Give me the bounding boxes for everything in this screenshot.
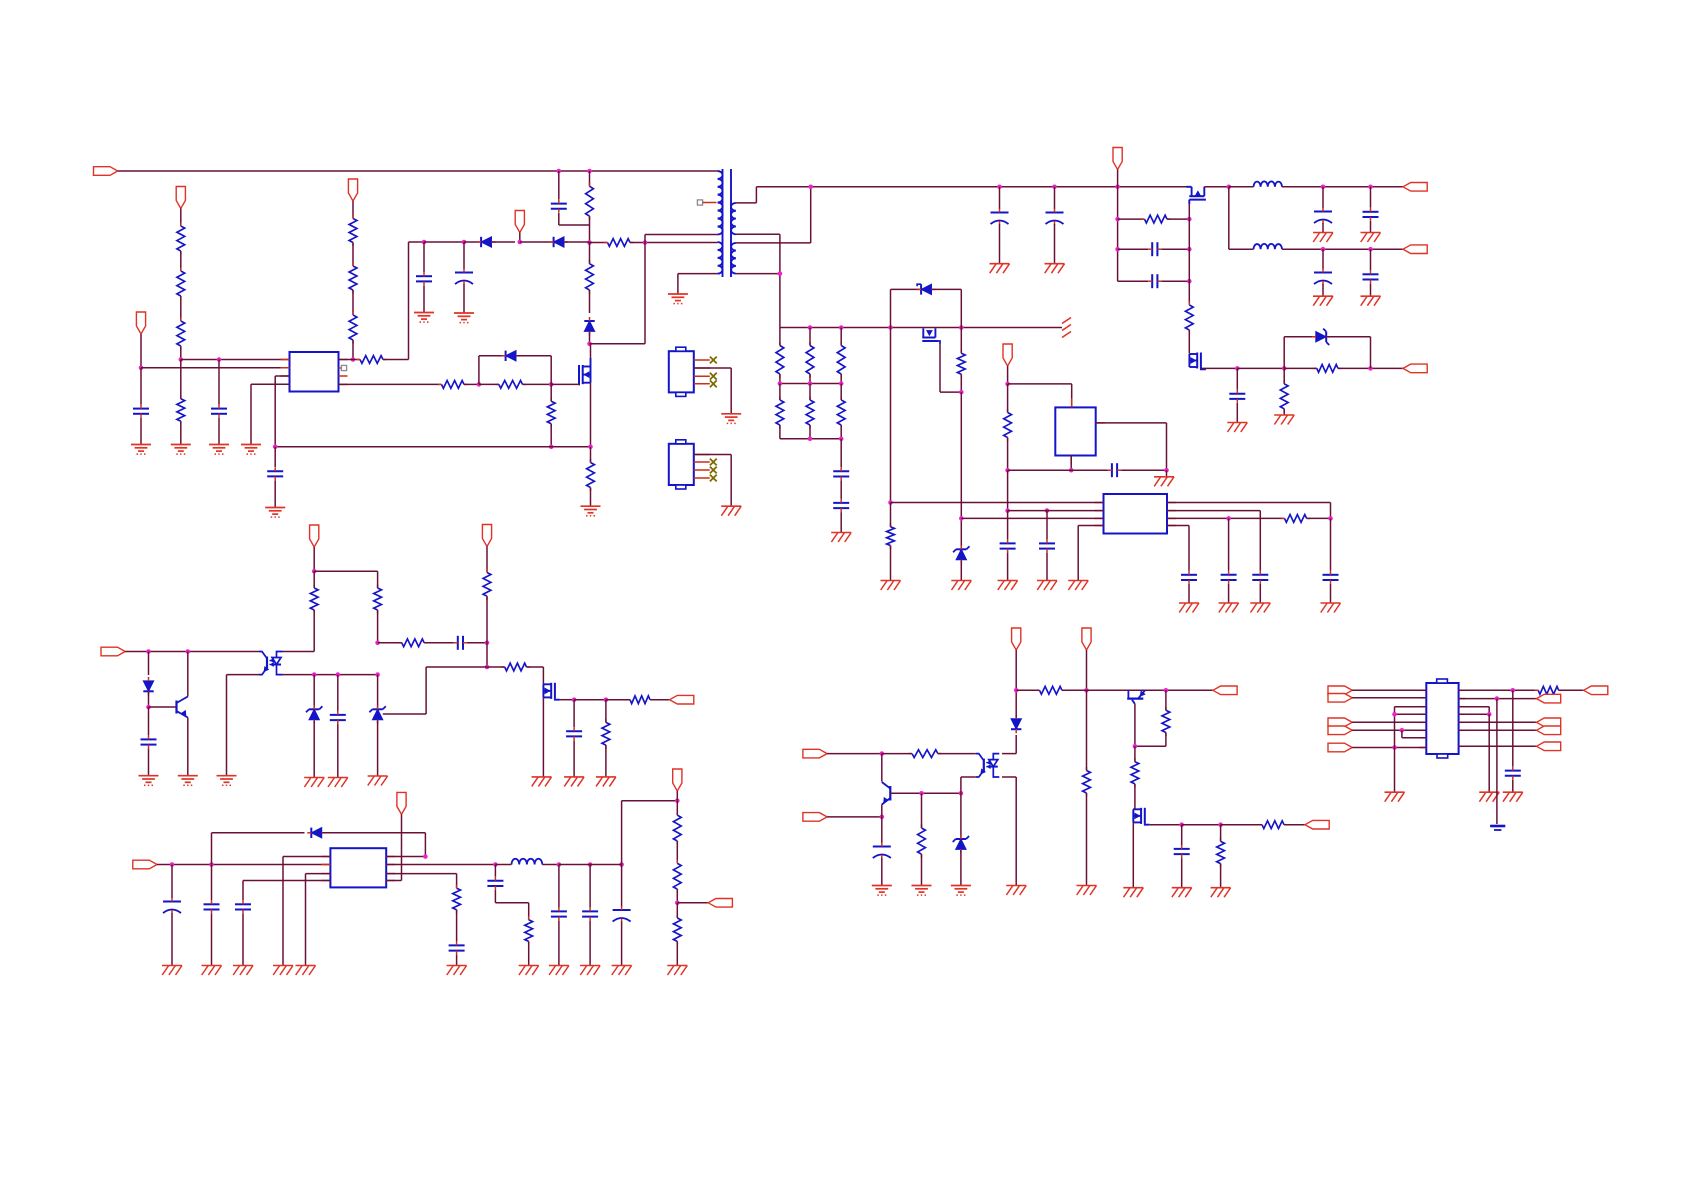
ground (368, 776, 388, 786)
wire drain (590, 235, 718, 344)
ground (414, 313, 434, 323)
transformer T1 sec1 (731, 203, 736, 234)
resistor R35 (673, 903, 681, 966)
junction (1368, 366, 1373, 371)
port IN (1328, 743, 1352, 752)
ground (1068, 581, 1088, 591)
resistor R3 (177, 209, 185, 272)
ground (1479, 792, 1499, 802)
port STAT (1213, 686, 1237, 695)
junction (839, 325, 844, 330)
ground (454, 313, 474, 323)
wire (275, 446, 590, 448)
wire pinL3 (961, 517, 1103, 519)
ground (178, 776, 198, 786)
wire (960, 392, 962, 518)
resistor grid2 (776, 384, 784, 439)
port VIN (94, 167, 118, 176)
junction (1218, 822, 1223, 827)
wire (424, 241, 464, 243)
junction (477, 382, 482, 387)
ground (951, 886, 971, 896)
op-amp U5 buck converter (330, 848, 386, 887)
wire (780, 327, 1062, 329)
junction (1187, 247, 1192, 252)
ground (328, 778, 348, 788)
capacitor C10 (1118, 274, 1190, 288)
resistor R22 (1004, 384, 1012, 470)
junction (808, 437, 813, 442)
junction (217, 357, 222, 362)
junction (1495, 696, 1500, 701)
ground (951, 581, 971, 591)
capacitor C17 (833, 499, 849, 533)
wire (1282, 186, 1403, 188)
port VOUT2B (1403, 364, 1427, 373)
junction (1005, 508, 1010, 513)
wire (283, 674, 378, 676)
transistor Q4 MOSFET (922, 328, 961, 392)
diode D4 gate (479, 351, 551, 385)
junction (1282, 366, 1287, 371)
junction (604, 697, 609, 702)
junction (919, 791, 924, 796)
resistor grid (837, 328, 845, 384)
wire (383, 667, 487, 714)
junction (1321, 247, 1326, 252)
port OUTA (1584, 686, 1608, 695)
port IN (1328, 718, 1352, 727)
junction (1115, 217, 1120, 222)
resistor R41 (1131, 746, 1139, 809)
resistor R17 (1185, 302, 1193, 354)
wire (1096, 423, 1167, 470)
diode D8 (143, 652, 153, 708)
power flag VCC3 (515, 211, 524, 243)
wire (780, 383, 841, 385)
port CTRL1 (101, 647, 125, 656)
wire pinR3 FB (386, 874, 456, 889)
junction (1052, 185, 1057, 190)
op-amp U1 PWM controller (290, 352, 339, 392)
capacitor C33 (449, 942, 465, 966)
junction (1321, 185, 1326, 190)
resistor R40 (1135, 690, 1170, 746)
wire pinL4 (1078, 526, 1103, 581)
transistor Q5 NPN (177, 652, 188, 776)
wire (1496, 699, 1498, 824)
optocoupler U4 (259, 652, 283, 675)
ground (233, 966, 253, 976)
resistor R25 (374, 571, 382, 643)
wire (1402, 730, 1426, 738)
wire pinR3 (1167, 517, 1285, 519)
junction (588, 862, 593, 867)
wire pinL2 (1008, 510, 1104, 512)
capacitor C34 (551, 865, 567, 966)
resistor grid (806, 328, 814, 384)
junction (312, 672, 317, 677)
junction (186, 649, 191, 654)
junction (808, 381, 813, 386)
junction (959, 516, 964, 521)
wire gate (339, 383, 442, 385)
wire (1352, 721, 1426, 723)
junction (1084, 688, 1089, 693)
junction (375, 672, 380, 677)
power flag VCC2 (348, 179, 357, 201)
junction (493, 862, 498, 867)
chassis ground (1062, 318, 1071, 338)
capacitor C22 (1323, 518, 1339, 603)
junction (375, 641, 380, 646)
ground (1503, 792, 1523, 802)
wire (1002, 777, 1016, 886)
junction (1133, 744, 1138, 749)
wire (1459, 729, 1537, 731)
wire rail2 (1229, 187, 1254, 249)
ground (580, 966, 600, 976)
junction (888, 500, 893, 505)
capacitor C23 (1221, 518, 1237, 603)
wire (1117, 187, 1119, 281)
ground (131, 445, 151, 455)
wire (1229, 186, 1254, 188)
junction (549, 382, 554, 387)
wire sec1 top (736, 187, 757, 203)
junction (1328, 516, 1333, 521)
junction (587, 169, 592, 174)
port OUTE (1537, 742, 1561, 751)
port IN (1328, 686, 1352, 695)
junction (422, 240, 427, 245)
resistor R43 (1221, 821, 1305, 829)
capacitor C28 (566, 700, 582, 777)
resistor R16 (1118, 215, 1190, 223)
junction (518, 240, 523, 245)
junction (1235, 366, 1240, 371)
power flag VOUT3 (673, 769, 682, 801)
diode D7 zener (953, 518, 969, 580)
junction (1115, 247, 1120, 252)
transistor Q2 sync MOSFET (1186, 187, 1206, 219)
junction (888, 325, 893, 330)
ground (881, 581, 901, 591)
junction (1187, 217, 1192, 222)
port OUTD (1537, 726, 1561, 735)
wire (1188, 219, 1190, 305)
ground (667, 966, 687, 976)
wire (1008, 384, 1072, 408)
transistor Q7 NPN (882, 754, 891, 817)
wire pin3 (275, 376, 289, 447)
capacitor C38 (1174, 825, 1190, 888)
ground (273, 966, 293, 976)
junction (146, 705, 151, 710)
junction (1115, 185, 1120, 190)
inductor L1 (1254, 181, 1283, 186)
resistor R44 (1535, 686, 1584, 694)
ground (1361, 296, 1381, 306)
junction (1005, 382, 1010, 387)
junction (880, 751, 885, 756)
transformer T1 core (723, 169, 732, 277)
wire (1204, 186, 1229, 188)
ground (304, 778, 324, 788)
ground (1037, 581, 1057, 591)
junction (643, 240, 648, 245)
resistor R12 (438, 381, 479, 389)
wire sec2 top (736, 187, 811, 243)
resistor R28 (487, 663, 543, 671)
wire (890, 328, 892, 503)
diode D6 schottky (891, 284, 962, 327)
op-amp U3 regulator (1055, 407, 1095, 455)
diode D2 (520, 237, 590, 247)
junction (997, 185, 1002, 190)
wire (1459, 745, 1537, 747)
junction (179, 357, 184, 362)
capacitor C36 polar (613, 865, 631, 966)
wire pinL4 (243, 881, 330, 901)
wire (1352, 729, 1426, 731)
wire (149, 706, 177, 708)
resistor R39 (1083, 690, 1091, 885)
capacitor C7 polar (991, 187, 1009, 264)
junction (273, 445, 278, 450)
resistor R42 (1217, 825, 1225, 888)
capacitor C19 (1000, 511, 1016, 581)
resistor grid2 (806, 384, 814, 439)
wire (1282, 248, 1403, 250)
capacitor C18 (1008, 463, 1167, 477)
port VOUT2A (1403, 245, 1427, 254)
capacitor C11 polar (1314, 187, 1332, 233)
wire pinR2 SW (386, 864, 495, 866)
junction (839, 437, 844, 442)
capacitor C32 boot (487, 865, 528, 920)
capacitor C31 (235, 900, 251, 965)
resistor R8 (349, 263, 357, 316)
port OUTC (1537, 718, 1561, 727)
transistor Q9 MOSFET (1133, 808, 1150, 888)
junction (485, 641, 490, 646)
wire (141, 367, 290, 369)
resistor R34 (673, 860, 681, 903)
junction (587, 240, 592, 245)
connector tab (1437, 679, 1448, 758)
diode D10 zener (369, 675, 385, 776)
transistor Q6 MOSFET (543, 667, 560, 777)
wire sec2 bot (736, 273, 780, 275)
wire (409, 241, 425, 243)
ground (990, 264, 1010, 274)
capacitor C35 (582, 865, 598, 966)
junction (1227, 185, 1232, 190)
resistor R4 (177, 268, 185, 322)
junction (312, 569, 317, 574)
junction (587, 342, 592, 347)
port GATE (1305, 820, 1329, 829)
junction (146, 649, 151, 654)
wire (1237, 367, 1284, 369)
ground (1321, 603, 1341, 613)
ground (139, 776, 159, 786)
resistor R15 sense (587, 447, 595, 506)
transistor Q3 MOSFET (1189, 353, 1218, 370)
wire (559, 864, 622, 866)
wire (1150, 824, 1182, 826)
ground (1250, 603, 1270, 613)
wire (125, 651, 259, 653)
resistor R14 pulldown (547, 384, 555, 446)
ground (596, 777, 616, 787)
ground (447, 966, 467, 976)
ground (265, 508, 285, 518)
wire (1459, 698, 1537, 700)
capacitor C24 (1181, 571, 1197, 603)
wire pinR2 (1167, 511, 1260, 571)
capacitor C25 (141, 707, 157, 776)
junction (808, 185, 813, 190)
capacitor C26 (424, 636, 487, 650)
resistor R37 (882, 750, 976, 758)
power flag VDRV (1003, 344, 1012, 384)
ground (1227, 423, 1247, 433)
power flag VA (310, 525, 319, 571)
diode D13 (1011, 690, 1021, 733)
wire pinL1 (283, 857, 330, 966)
wire (1459, 713, 1490, 715)
capacitor C20 (1039, 511, 1055, 581)
capacitor C16 (833, 439, 849, 499)
capacitor C37 polar (873, 817, 891, 886)
junction (139, 366, 144, 371)
junction (588, 445, 593, 450)
junction (209, 862, 214, 867)
ground (241, 445, 261, 455)
ground GNDPWR (1490, 826, 1505, 830)
wire (1459, 689, 1539, 691)
ground (668, 294, 688, 304)
transformer T1 sec2 (731, 243, 736, 274)
ground (1006, 886, 1026, 896)
no-connect tap (697, 200, 716, 205)
ground (1385, 792, 1405, 802)
no-connect (339, 365, 347, 370)
ground (1361, 233, 1381, 243)
wire (1459, 707, 1490, 715)
capacitor C21 (1252, 571, 1268, 603)
junction (1487, 712, 1492, 717)
op-amp U2 sync controller (1104, 494, 1168, 534)
junction (1392, 712, 1397, 717)
wire gnd tie (1395, 707, 1427, 793)
power flag VC (1012, 628, 1021, 690)
resistor R20 (957, 328, 965, 393)
wire (1002, 735, 1016, 754)
wire (1070, 456, 1072, 471)
wire pinR1 (1167, 503, 1331, 519)
junction (1368, 247, 1373, 252)
wire (961, 777, 976, 793)
capacitor C29 polar (163, 865, 181, 966)
junction (1164, 688, 1169, 693)
ground (202, 966, 222, 976)
wire (694, 455, 731, 507)
port VIN2 (133, 860, 157, 869)
wire (140, 334, 142, 368)
junction (549, 445, 554, 450)
capacitor C8 polar (1046, 187, 1064, 264)
wire (574, 699, 606, 701)
ground (721, 414, 741, 424)
junction (675, 901, 680, 906)
resistor R31 (525, 916, 533, 965)
port CTRL2A (803, 749, 827, 758)
resistor R19 (1280, 368, 1288, 415)
wire (1007, 470, 1009, 510)
port FB1 (708, 899, 732, 908)
power flag VD (1082, 628, 1091, 690)
ground (1154, 470, 1174, 486)
wire pinR4 (1167, 526, 1189, 571)
wire (1352, 747, 1426, 749)
capacitor C5 polar (455, 242, 473, 313)
transistor Q1 MOSFET (579, 344, 591, 447)
op-amp U7 interface IC (1426, 683, 1458, 754)
ground (296, 966, 316, 976)
ground (519, 966, 539, 976)
junction (1368, 185, 1373, 190)
capacitor C6 (267, 447, 283, 508)
connector J1 (669, 347, 717, 396)
optocoupler U6 (976, 754, 1000, 777)
resistor R1 snubber (586, 171, 594, 243)
wire (314, 570, 377, 572)
resistor R27 (483, 569, 491, 643)
wire (1182, 824, 1221, 826)
power flag VOUT1 (1113, 148, 1122, 187)
capacitor C15 (1229, 368, 1245, 422)
resistor R33 (673, 801, 681, 864)
junction (557, 862, 562, 867)
resistor R29 (602, 700, 610, 777)
wire (1352, 689, 1426, 691)
wire (486, 643, 488, 667)
wire (1087, 689, 1213, 691)
diode D3 blocking (584, 317, 594, 344)
wire (383, 242, 409, 360)
junction (485, 665, 490, 670)
wire sec1 bot (736, 234, 780, 327)
wire (227, 675, 260, 776)
ground (549, 966, 569, 976)
power flag VREF (136, 312, 145, 334)
wire (1488, 714, 1490, 792)
junction (572, 697, 577, 702)
inductor L2 (1254, 244, 1283, 249)
ground (217, 776, 237, 786)
wire (780, 438, 841, 440)
wire (1218, 367, 1237, 369)
capacitor C12 (1363, 187, 1379, 233)
resistor R26 (378, 639, 428, 647)
wire pinL3 (306, 874, 331, 966)
wire (827, 753, 882, 755)
capacitor C14 (1363, 249, 1379, 296)
capacitor C39 (1505, 690, 1521, 792)
